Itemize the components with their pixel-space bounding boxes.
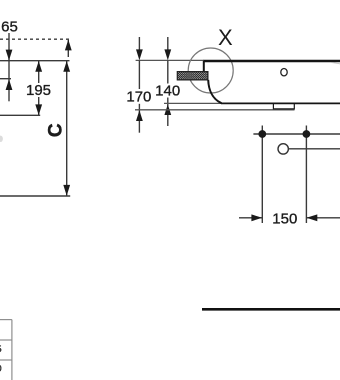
basin top edge: [204, 60, 340, 63]
dim line 65 vertical: [8, 33, 10, 101]
basin rear wall upper: [203, 61, 205, 76]
arrow down 195: [35, 104, 42, 115]
arrow down C: [63, 185, 70, 196]
basin bottom edge: [221, 102, 340, 104]
dim 195 vertical line: [38, 61, 40, 83]
arrow up C: [63, 61, 70, 72]
basin rear wall lower curve: [208, 80, 221, 103]
reference line 140 (basin bottom extension): [164, 102, 222, 104]
tap hole (plan): [278, 144, 288, 154]
dim 150 left segment: [239, 217, 262, 219]
dimension table (cut off at left edge): [0, 319, 12, 321]
svg-text:65: 65: [1, 18, 18, 35]
arrow up 140: [164, 104, 171, 115]
dim 170 line upper segment: [138, 61, 140, 90]
bottom line of 195: [0, 114, 40, 116]
bottom line of C: [0, 195, 70, 197]
dim C vertical line: [66, 61, 68, 196]
arrow up to short line: [6, 79, 13, 90]
svg-text:X: X: [218, 25, 233, 50]
arrow down to solid line: [6, 50, 13, 61]
arrow up (65) at dashed line: [67, 40, 69, 57]
svg-text:195: 195: [26, 82, 51, 99]
arrow down 170: [136, 49, 143, 60]
fixing hole dot left: [261, 126, 263, 224]
svg-text:170: 170: [126, 89, 151, 106]
cut-off label ghost (left edge): [0, 136, 3, 142]
top reference line (middle): [136, 59, 204, 61]
short reference line (left, cut): [0, 78, 11, 80]
arrow right 150: [251, 214, 262, 221]
dim 170 line lower segment: [138, 104, 140, 133]
svg-text:0: 0: [0, 363, 2, 373]
svg-text:5: 5: [0, 344, 2, 354]
line from tap hole: [289, 148, 340, 150]
fixing hole dot right: [305, 126, 307, 224]
dim 140 vertical: [167, 37, 169, 50]
drain cover tab (notch): [273, 104, 294, 109]
arrow up 170: [136, 110, 143, 121]
wall bracket crosshatched section: [177, 72, 208, 80]
reference line 170 (lowest point): [135, 109, 295, 111]
svg-text:C: C: [46, 123, 67, 137]
arrow down 140: [164, 49, 171, 60]
basin top edge right end droop: [330, 62, 340, 64]
fixing holes line: [253, 133, 340, 135]
front view top edge (cropped drawing below): [202, 308, 340, 311]
dashed reference line (top): [0, 38, 70, 40]
dim 150 right segment: [307, 217, 340, 219]
dim 170 vertical: [138, 37, 140, 50]
detail circle X: [188, 48, 233, 93]
tap hole (side view): [281, 69, 287, 76]
dim 140 line upper segment: [167, 61, 169, 84]
svg-text:150: 150: [272, 211, 297, 228]
dim 140 line lower segment: [167, 98, 169, 127]
arrow left 150: [307, 214, 318, 221]
arrow up 195: [35, 61, 42, 72]
solid reference line (left top): [0, 60, 70, 62]
svg-text:140: 140: [155, 83, 180, 100]
